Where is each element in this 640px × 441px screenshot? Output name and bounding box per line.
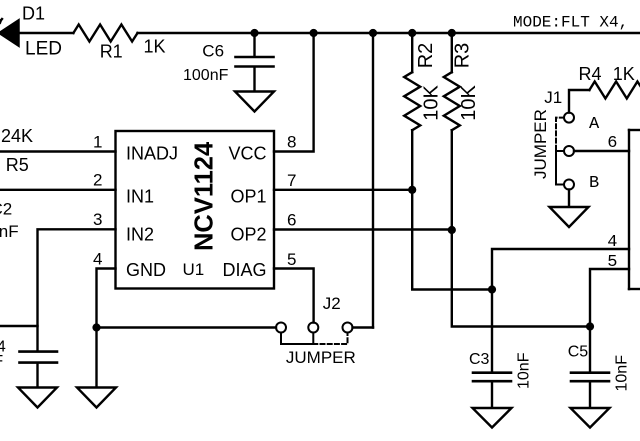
resistor R3 bbox=[444, 72, 460, 130]
svg-text:GND: GND bbox=[126, 260, 166, 280]
svg-text:1: 1 bbox=[93, 133, 102, 152]
svg-text:J1: J1 bbox=[544, 88, 562, 107]
svg-text:NCV1124: NCV1124 bbox=[191, 141, 219, 251]
svg-text:2: 2 bbox=[93, 171, 102, 190]
svg-text:24K: 24K bbox=[1, 126, 33, 146]
jumper J1 circle A bbox=[564, 113, 574, 123]
node dot R2 on rail bbox=[408, 29, 416, 37]
ground C5 bbox=[571, 408, 610, 428]
svg-text:R3: R3 bbox=[452, 43, 474, 69]
jumper J1 circle mid bbox=[564, 146, 574, 156]
svg-text:4: 4 bbox=[607, 233, 617, 252]
ground C6 bbox=[235, 92, 274, 112]
svg-text:6: 6 bbox=[287, 211, 296, 230]
svg-text:DIAG: DIAG bbox=[222, 260, 266, 280]
jumper J1 solid link mid-B bbox=[556, 151, 564, 185]
wire DIAG pin5 to J2 bbox=[274, 269, 314, 323]
svg-text:10K: 10K bbox=[458, 85, 480, 121]
node dot OP1/R2 bbox=[408, 186, 416, 194]
svg-text:1K: 1K bbox=[144, 37, 166, 57]
resistor R1 bbox=[73, 25, 137, 42]
diode D1 (LED) bbox=[0, 19, 19, 47]
ground GND pin4 bbox=[77, 388, 116, 408]
jumper J2 solid link left-mid bbox=[281, 333, 313, 344]
svg-text:J2: J2 bbox=[323, 294, 341, 313]
wire C3 to ground bbox=[491, 382, 493, 407]
IC U2 box right edge bbox=[629, 130, 640, 289]
svg-text:C5: C5 bbox=[568, 344, 589, 361]
svg-text:10nF: 10nF bbox=[516, 352, 533, 389]
jumper J2 circle right bbox=[343, 323, 353, 333]
wire pin4 of U2 to C3 node bbox=[492, 249, 629, 290]
capacitor C5 bbox=[571, 373, 609, 382]
wire C6 riser bbox=[253, 33, 255, 56]
wire pin1 INADJ bbox=[0, 150, 116, 152]
svg-text:LED: LED bbox=[25, 39, 62, 60]
node dot pin5/C5 bbox=[586, 322, 594, 330]
svg-text:10nF: 10nF bbox=[0, 353, 3, 370]
wire R2 top bbox=[411, 33, 413, 72]
capacitor C3 bbox=[473, 373, 511, 382]
svg-text:R4: R4 bbox=[579, 64, 602, 84]
wire OP1 pin7 bbox=[274, 189, 412, 191]
svg-text:OP2: OP2 bbox=[230, 225, 266, 245]
svg-text:3: 3 bbox=[93, 210, 102, 229]
wire C4 to ground bbox=[36, 364, 38, 387]
svg-text:1K: 1K bbox=[613, 64, 635, 84]
wire top rail left segment bbox=[18, 32, 73, 34]
svg-text:IN1: IN1 bbox=[126, 187, 154, 207]
node dot pin4/C3 bbox=[488, 285, 496, 293]
svg-text:8: 8 bbox=[287, 133, 296, 152]
jumper J1 circle B bbox=[564, 180, 574, 190]
svg-text:B: B bbox=[589, 174, 599, 193]
node dot J2 riser on rail bbox=[369, 29, 377, 37]
ground J1 bbox=[550, 207, 589, 227]
svg-text:R2: R2 bbox=[415, 43, 437, 69]
svg-text:JUMPER: JUMPER bbox=[531, 109, 550, 179]
wire R3 bottom to C5 node bbox=[452, 130, 590, 326]
wire C6 to ground bbox=[253, 68, 255, 91]
wire left stub to C4 node bbox=[0, 325, 38, 327]
wire GND pin4 bbox=[97, 269, 116, 388]
svg-text:R5: R5 bbox=[6, 155, 29, 175]
jumper J2 dashed link mid-right bbox=[313, 333, 347, 344]
wire J1 B to ground bbox=[568, 190, 570, 207]
svg-text:7: 7 bbox=[287, 171, 296, 190]
svg-text:5: 5 bbox=[287, 250, 296, 269]
wire VCC riser pin8 bbox=[274, 33, 314, 152]
resistor R4 bbox=[589, 82, 640, 99]
wire C5 to ground bbox=[589, 382, 591, 407]
wire GND bus to J2 bbox=[97, 326, 277, 328]
svg-text:10nF: 10nF bbox=[614, 355, 631, 392]
svg-text:6: 6 bbox=[607, 134, 617, 153]
node dot OP2/R3 bbox=[448, 226, 456, 234]
node dot VCC riser on rail bbox=[310, 29, 318, 37]
node dot GND bus bbox=[92, 323, 100, 331]
jumper J2 circle left bbox=[276, 323, 286, 333]
wire OP2 pin6 bbox=[274, 228, 452, 230]
resistor R2 bbox=[404, 72, 420, 130]
capacitor C6 bbox=[236, 57, 274, 67]
svg-text:INADJ: INADJ bbox=[126, 144, 178, 164]
wire J2 riser bbox=[372, 33, 374, 328]
svg-text:10K: 10K bbox=[421, 85, 443, 121]
wire J2 right to riser bbox=[353, 326, 374, 328]
svg-text:A: A bbox=[589, 115, 600, 134]
wire pin3 IN2 to C4 bbox=[38, 229, 116, 350]
svg-text:C6: C6 bbox=[202, 42, 224, 61]
node dot R3 on rail bbox=[448, 29, 456, 37]
svg-text:C3: C3 bbox=[469, 351, 490, 368]
wire pin2 IN1 bbox=[0, 189, 116, 191]
svg-text:R1: R1 bbox=[100, 41, 123, 61]
svg-text:U1: U1 bbox=[183, 260, 205, 279]
node dot C6 on rail bbox=[250, 29, 258, 37]
wire pin5 of U2 to C5 bbox=[590, 269, 629, 327]
svg-text:C2: C2 bbox=[0, 200, 12, 219]
IC U1 box bbox=[116, 131, 275, 289]
svg-text:JUMPER: JUMPER bbox=[286, 348, 356, 367]
wire J1 middle to pin6 of U2 bbox=[574, 150, 629, 152]
wire C3 column bbox=[491, 290, 493, 372]
svg-text:VCC: VCC bbox=[228, 144, 266, 164]
svg-text:100nF: 100nF bbox=[0, 222, 19, 241]
jumper J1 dashed link A-mid bbox=[556, 118, 564, 151]
svg-text:D1: D1 bbox=[22, 4, 45, 24]
ground C3 bbox=[473, 408, 512, 428]
svg-text:4: 4 bbox=[93, 250, 102, 269]
wire J1 A to R4 bbox=[569, 90, 589, 113]
svg-text:IN2: IN2 bbox=[126, 225, 154, 245]
svg-text:100nF: 100nF bbox=[183, 67, 229, 84]
svg-text:OP1: OP1 bbox=[230, 187, 266, 207]
wire R3 top bbox=[451, 33, 453, 72]
svg-text:MODE:FLT X4,: MODE:FLT X4, bbox=[513, 13, 628, 31]
wire C5 column bbox=[589, 327, 591, 372]
svg-text:5: 5 bbox=[607, 253, 617, 272]
wire R2 bottom to pin4 node bbox=[412, 130, 492, 289]
ground C4 bbox=[18, 388, 57, 408]
jumper J2 circle mid bbox=[308, 323, 318, 333]
capacitor C4 bbox=[20, 352, 58, 363]
wire top rail right segment bbox=[138, 32, 640, 34]
